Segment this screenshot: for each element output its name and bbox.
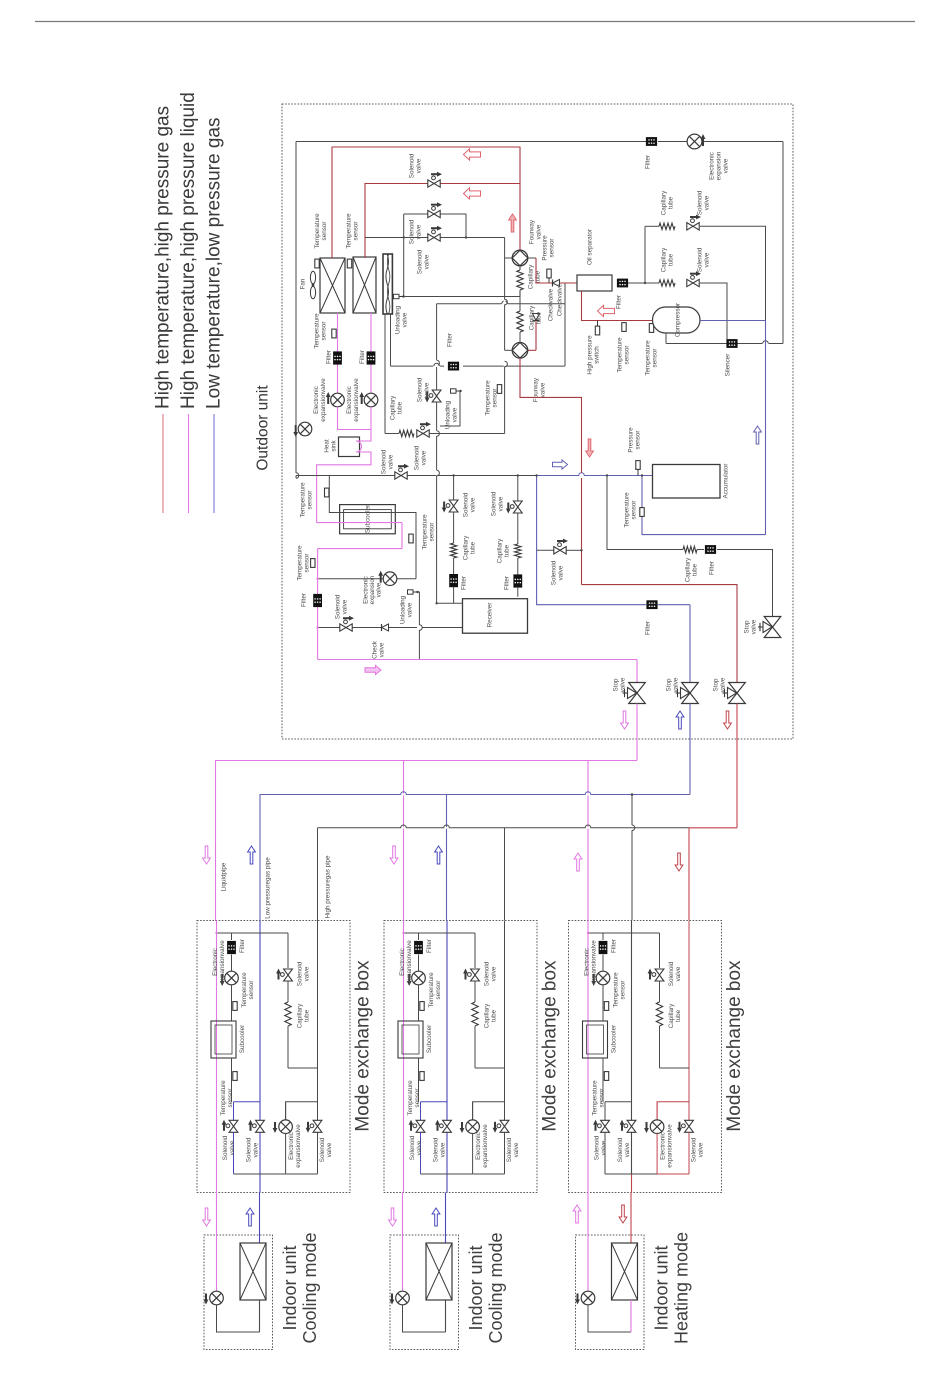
svg-text:Filter: Filter (447, 333, 454, 347)
filter on top pipe (645, 137, 658, 169)
svg-text:Solenoid: Solenoid (381, 449, 388, 474)
svg-text:sink: sink (331, 440, 338, 452)
svg-text:Solenoid: Solenoid (433, 1137, 440, 1162)
lower branch link in box 1 (234, 1101, 261, 1103)
svg-text:Pressure: Pressure (542, 235, 549, 261)
red pipe from coil1 to fourway valve (332, 147, 520, 258)
magenta arrow right (365, 665, 381, 674)
svg-text:Unloading: Unloading (400, 595, 407, 624)
svg-text:Fourway: Fourway (533, 377, 540, 402)
blue low pressure line out (537, 476, 690, 683)
svg-text:Filter: Filter (611, 939, 618, 953)
electronic expansion valve in box 3 (584, 940, 610, 986)
indoor 3 arrow liquid (573, 1205, 581, 1223)
mode exchange box 1 dashed enclosure (197, 921, 350, 1193)
temperature sensor near compressor 2 (645, 324, 659, 376)
svg-text:sensor: sensor (652, 349, 659, 368)
svg-text:expansionvalve: expansionvalve (482, 1124, 489, 1168)
svg-text:sensor: sensor (631, 501, 638, 520)
svg-text:Subcooler: Subcooler (239, 1025, 246, 1053)
svg-text:Solenoid: Solenoid (691, 1137, 698, 1162)
vertical link (505, 238, 508, 434)
svg-text:Cooling mode: Cooling mode (486, 1232, 506, 1343)
electronic expansion valve lower in box 2 (460, 1102, 489, 1174)
svg-text:Indoor unit: Indoor unit (280, 1245, 300, 1330)
svg-text:Solenoid: Solenoid (409, 219, 416, 244)
indoor 1 arrow liquid (203, 1208, 211, 1226)
svg-text:valve: valve (379, 642, 386, 657)
svg-text:Temperature: Temperature (613, 972, 620, 1008)
stop valve high pressure port (744, 617, 781, 638)
temperature sensor 1 in box 1 (232, 972, 256, 1021)
svg-text:valve: valve (751, 619, 758, 634)
fourway valve 1 (505, 219, 543, 266)
electronic expansion valve 2 (346, 378, 378, 422)
svg-text:Electronic: Electronic (212, 948, 219, 976)
svg-text:Checkvalve: Checkvalve (557, 283, 564, 316)
svg-text:Fourway: Fourway (529, 219, 536, 244)
solenoid valve on black line (365, 226, 505, 274)
suction rail (296, 475, 537, 477)
svg-text:Unloading: Unloading (445, 400, 452, 429)
indoor unit 1 label (280, 1232, 320, 1343)
magenta arrow down box1 (203, 846, 211, 864)
svg-text:valve: valve (407, 602, 414, 617)
svg-text:Temperature: Temperature (428, 972, 435, 1008)
svg-text:tube: tube (304, 1009, 311, 1022)
svg-text:Filter: Filter (645, 621, 652, 635)
lower branch link in box 3 (605, 1101, 632, 1103)
svg-text:tube: tube (470, 541, 477, 554)
solenoid valve on receiver line (335, 594, 355, 631)
magenta subcooler loop (317, 523, 402, 660)
high pressure gas header (318, 825, 690, 828)
svg-text:valve: valve (540, 382, 547, 397)
indoor 2 arrow gas (432, 1208, 440, 1226)
svg-text:Silencer: Silencer (725, 354, 732, 377)
svg-text:sensor: sensor (620, 981, 627, 1000)
svg-text:Capillary: Capillary (661, 190, 668, 215)
svg-text:valve: valve (675, 966, 682, 981)
svg-text:sensor: sensor (321, 322, 328, 341)
svg-text:High temperature,high pressure: High temperature,high pressure gas (153, 106, 174, 409)
svg-text:tube: tube (675, 1009, 682, 1022)
svg-text:sensor: sensor (304, 554, 311, 573)
magenta arrow up box3 (574, 853, 582, 871)
oil separator (577, 229, 612, 291)
liquid pipe into indoor 3 (587, 1193, 589, 1292)
svg-text:Mode exchange box: Mode exchange box (353, 960, 374, 1132)
svg-text:Temperature: Temperature (297, 545, 304, 581)
svg-text:Filter: Filter (359, 350, 366, 364)
svg-text:sensor: sensor (492, 389, 499, 408)
svg-text:sensor: sensor (435, 981, 442, 1000)
svg-text:Capillary: Capillary (528, 264, 535, 289)
indoor 2 expansion valve (390, 1291, 410, 1305)
solenoid valve C in box 1 (306, 1102, 333, 1162)
indoor unit 3 dashed enclosure (576, 1235, 645, 1350)
svg-text:Fan: Fan (300, 278, 307, 289)
top rule (35, 21, 915, 23)
indoor 3 expansion valve (575, 1291, 595, 1305)
heat exchanger coil 1 (320, 258, 345, 313)
mode exchange box 1 label (353, 960, 374, 1132)
svg-text:valve: valve (624, 1142, 631, 1157)
red pipe from coil2 through solenoid (365, 184, 520, 259)
svg-text:Solenoid: Solenoid (409, 1135, 416, 1160)
solenoid valve C in box 3 (677, 1102, 704, 1162)
lower branch link in box 2 (421, 1101, 448, 1103)
mode exchange box 2 label (540, 960, 561, 1132)
electronic expansion valve in box 2 (399, 940, 425, 986)
svg-text:Solenoid: Solenoid (491, 491, 498, 516)
magenta branch to box3 (587, 761, 589, 921)
svg-text:Capillary: Capillary (297, 1003, 304, 1028)
svg-text:Capillary: Capillary (463, 535, 470, 560)
solenoid valve A in box 2 (409, 1102, 425, 1174)
solenoid valve B in box 2 (433, 1120, 452, 1162)
branch header in box 1 (215, 932, 288, 934)
gas pipe into indoor 3 (630, 1193, 632, 1244)
magenta branch to box2 (403, 761, 405, 921)
svg-text:Solenoid: Solenoid (506, 1137, 513, 1162)
temperature sensor on coil 1 (314, 213, 328, 268)
svg-text:valve: valve (498, 496, 505, 511)
svg-text:Stop: Stop (613, 678, 620, 691)
svg-text:Electronic: Electronic (399, 948, 406, 976)
svg-text:Solenoid: Solenoid (697, 190, 704, 215)
svg-text:Solenoid: Solenoid (551, 560, 558, 585)
svg-text:Solenoid: Solenoid (222, 1135, 229, 1160)
svg-text:Filter: Filter (426, 939, 433, 953)
indoor 2 bottom pipe (403, 1300, 446, 1332)
svg-text:valve: valve (402, 312, 409, 327)
svg-text:sensor: sensor (353, 222, 360, 241)
temperature sensor 1 in box 3 (603, 972, 627, 1021)
svg-text:Temperature: Temperature (407, 1080, 414, 1116)
svg-text:Indoor unit: Indoor unit (652, 1245, 672, 1330)
svg-text:Capillary: Capillary (497, 538, 504, 563)
subcooler outlet in box 3 (592, 1058, 609, 1116)
blue line exits outdoor unit (689, 704, 691, 795)
gas pipe into indoor 2 (445, 1193, 447, 1244)
svg-text:Subcooler: Subcooler (426, 1025, 433, 1053)
svg-text:Filter: Filter (504, 576, 511, 590)
indoor 1 bottom pipe (217, 1300, 260, 1332)
svg-text:valve: valve (388, 454, 395, 469)
subcooler in box 1 (211, 1021, 246, 1058)
solenoid bypass blue-red (537, 539, 582, 586)
hollow red arrow left (lower) (464, 188, 481, 199)
solenoid capillary branch in box 2 (463, 933, 504, 1068)
indoor 2 heat exchanger (426, 1243, 452, 1300)
unloading valve mid (440, 389, 462, 429)
solenoid valve C in box 2 (493, 1102, 520, 1162)
electronic expansion valve 1 (313, 378, 344, 422)
svg-text:valve: valve (723, 158, 730, 173)
unloading valve top (394, 294, 521, 334)
svg-text:Capillary: Capillary (484, 1003, 491, 1028)
svg-text:expansionvalve: expansionvalve (320, 378, 327, 422)
temperature sensor on magenta 1 (314, 313, 337, 349)
indoor 3 bottom pipe (588, 1300, 631, 1332)
gas main through box 3 (631, 921, 633, 1193)
svg-text:Temperature: Temperature (314, 313, 321, 349)
liquid main through box 2 (403, 921, 405, 1193)
svg-text:valve: valve (513, 1142, 520, 1157)
indoor 3 heat exchanger (612, 1243, 638, 1300)
black drop from solenoid manifold (403, 214, 405, 297)
svg-text:valve: valve (424, 254, 431, 269)
blue gas header (260, 792, 690, 921)
receiver feed line (318, 627, 463, 629)
svg-text:valve: valve (440, 1142, 447, 1157)
oil return line with capillary (628, 247, 727, 344)
magenta arrow down box2 (390, 846, 398, 864)
junction dots outdoor (316, 236, 646, 628)
svg-text:Stop: Stop (744, 620, 751, 633)
svg-text:High pressure: High pressure (587, 335, 594, 375)
svg-text:Temperature: Temperature (220, 1080, 227, 1116)
liquid pipe into indoor 2 (402, 1193, 404, 1292)
oil drain to silencer line (666, 333, 783, 376)
svg-text:valve: valve (720, 677, 727, 692)
legend line: high temperature high pressure gas (red) (153, 106, 174, 513)
svg-text:Temperature: Temperature (592, 1080, 599, 1116)
solenoid valve bypass loop (404, 202, 466, 244)
indoor 2 arrow liquid (389, 1208, 397, 1226)
electronic expansion valve lower in box 1 (273, 1102, 302, 1174)
svg-text:valve: valve (601, 1140, 608, 1155)
receiver (463, 599, 528, 634)
svg-text:valve: valve (326, 1142, 333, 1157)
bottom rail in box 3 (605, 1133, 689, 1175)
magenta pipe through heat sink (317, 407, 371, 523)
svg-text:sensor: sensor (414, 1089, 421, 1108)
liquid main through box 1 (216, 921, 218, 1193)
svg-text:Oil separator: Oil separator (587, 229, 594, 265)
black line through subcooler (329, 476, 416, 579)
indoor 1 arrow gas (246, 1208, 254, 1226)
indoor 1 expansion valve (204, 1291, 224, 1305)
filter on blue line (645, 600, 658, 635)
svg-text:valve: valve (704, 252, 711, 267)
accumulator (653, 464, 730, 499)
svg-text:Filter: Filter (301, 593, 308, 607)
outdoor unit dashed enclosure (282, 104, 793, 739)
mode exchange box 2 dashed enclosure (384, 921, 537, 1193)
svg-text:sensor: sensor (321, 222, 328, 241)
svg-text:tube: tube (397, 401, 404, 414)
gas main through box 1 (259, 921, 261, 1193)
svg-text:Cooling mode: Cooling mode (300, 1232, 320, 1343)
svg-text:Mode exchange box: Mode exchange box (724, 960, 745, 1132)
svg-text:Temperature: Temperature (645, 340, 652, 376)
svg-text:sensor: sensor (599, 1089, 606, 1108)
check valve on oil separator line (548, 280, 560, 322)
heat sink expansion valve (293, 422, 312, 437)
solenoid capillary branch in box 3 (648, 933, 689, 1068)
svg-text:tube: tube (668, 196, 675, 209)
svg-text:Subcooler: Subcooler (365, 505, 372, 533)
svg-text:Filter: Filter (616, 295, 623, 309)
pressure sensor on suction rail (628, 427, 642, 476)
indoor 3 arrow gas (619, 1205, 627, 1223)
indoor unit 1 dashed enclosure (204, 1235, 273, 1350)
indoor unit 3 label (652, 1232, 692, 1344)
subcooler in box 3 (583, 1021, 618, 1058)
red line fourway1 to oil separator (528, 258, 577, 283)
svg-text:Capillary: Capillary (390, 395, 397, 420)
filter on magenta 2 (359, 350, 375, 365)
svg-text:High temperature,high pressure: High temperature,high pressure liquid (178, 92, 199, 409)
left edge pipe (296, 142, 299, 479)
high pressure branch to box1 (317, 828, 319, 921)
svg-text:valve: valve (342, 599, 349, 614)
blue arrow up at stop valve (676, 711, 684, 729)
svg-text:Heat: Heat (324, 439, 331, 453)
filter line (391, 314, 566, 371)
svg-text:valve: valve (452, 407, 459, 422)
red drop to fourway 2 (528, 321, 536, 350)
svg-text:Filter: Filter (326, 350, 333, 364)
svg-text:Electronic: Electronic (709, 152, 716, 180)
solenoid capillary branch in box 1 (276, 933, 317, 1068)
svg-text:Solenoid: Solenoid (246, 1137, 253, 1162)
svg-text:Temperature: Temperature (346, 213, 353, 249)
svg-text:sensor: sensor (227, 1089, 234, 1108)
red high pressure line out (582, 585, 738, 682)
electronic expansion valve lower in box 3 (644, 1102, 673, 1174)
red arrow down at stop valve (724, 711, 732, 729)
solenoid valve A in box 1 (222, 1102, 238, 1174)
oil return from suction rail (607, 476, 773, 617)
heat exchanger coil 2 (353, 257, 376, 313)
svg-text:expansionvalve: expansionvalve (219, 940, 226, 984)
svg-text:Solenoid: Solenoid (417, 377, 424, 402)
blue arrow up box2 (435, 846, 443, 864)
svg-text:Filter: Filter (461, 576, 468, 590)
svg-text:Solenoid: Solenoid (417, 249, 424, 274)
magenta line exits outdoor unit (636, 704, 638, 761)
svg-text:sensor: sensor (248, 981, 255, 1000)
svg-text:Checkvalve: Checkvalve (548, 288, 555, 321)
temperature sensor on subcooler outlet (409, 514, 436, 550)
svg-text:Stop: Stop (666, 678, 673, 691)
branch header in box 2 (402, 932, 475, 934)
solenoid valve B in box 1 (246, 1120, 265, 1162)
filter branch in box 3 (599, 933, 618, 971)
svg-text:tube: tube (536, 311, 543, 324)
svg-text:Capillary: Capillary (668, 1003, 675, 1028)
legend line: low temperature low pressure gas (blue) (204, 118, 225, 513)
blue arrow up box1 (248, 846, 256, 864)
svg-text:valve: valve (376, 582, 383, 597)
high pressure branch to box2 (504, 828, 506, 920)
svg-text:Solenoid: Solenoid (697, 247, 704, 272)
svg-text:valve: valve (558, 565, 565, 580)
svg-text:Temperature: Temperature (617, 337, 624, 373)
svg-text:Capillary: Capillary (661, 247, 668, 272)
svg-text:Temperature: Temperature (422, 514, 429, 550)
svg-text:Solenoid: Solenoid (463, 492, 470, 517)
svg-text:switch: switch (594, 346, 601, 364)
svg-text:Solenoid: Solenoid (319, 1137, 326, 1162)
capillary solenoid branch line (385, 395, 505, 470)
svg-text:valve: valve (491, 966, 498, 981)
outdoor unit label (255, 385, 272, 471)
svg-text:expansionvalve: expansionvalve (591, 940, 598, 984)
subcooler outlet in box 2 (407, 1058, 424, 1116)
svg-text:tube: tube (504, 544, 511, 557)
high pressure main in box 3 (657, 921, 689, 1121)
filter branch in box 1 (227, 933, 246, 971)
filter on magenta 1 (326, 350, 342, 365)
svg-text:Solenoid: Solenoid (409, 153, 416, 178)
temperature sensor near compressor 1 (617, 323, 631, 373)
bottom rail in box 2 (421, 1133, 505, 1175)
accumulator suction out (642, 321, 766, 535)
svg-text:Capillary: Capillary (529, 305, 536, 330)
box around fourway valves (437, 301, 565, 431)
liquid pipe into indoor 1 (216, 1193, 218, 1292)
high pressure gas pipe label (325, 855, 332, 919)
svg-text:valve: valve (698, 1142, 705, 1157)
pressure sensor on discharge (542, 235, 556, 283)
capillary between fourways (517, 297, 543, 343)
discharge loop right edge (782, 142, 784, 344)
hollow red arrow left (upper) (464, 149, 481, 160)
subcooler in box 2 (398, 1021, 433, 1058)
svg-text:Temperature: Temperature (241, 972, 248, 1008)
black branch to box3 (631, 793, 635, 920)
unloading valve on subcooler outlet (400, 590, 423, 660)
temperature sensor on magenta drop (297, 545, 316, 581)
magenta pipe coil1 to EEV (337, 313, 339, 393)
heat sink (324, 437, 360, 457)
svg-text:Indoor unit: Indoor unit (466, 1245, 486, 1330)
svg-text:sensor: sensor (624, 346, 631, 365)
svg-text:Heating mode: Heating mode (672, 1232, 692, 1344)
red arrow up at fourway valve (509, 214, 517, 232)
svg-text:Outdoor unit: Outdoor unit (255, 385, 272, 471)
magenta pipe coil2 to EEV (370, 313, 372, 393)
liquid pipe label (221, 862, 228, 891)
separator drop line (384, 314, 386, 434)
electronic expansion valve on top pipe (687, 134, 729, 180)
subcooler (340, 505, 396, 534)
svg-text:Temperature: Temperature (485, 380, 492, 416)
svg-text:valve: valve (304, 966, 311, 981)
blue branch to box2 (446, 795, 448, 921)
svg-text:Electronic: Electronic (584, 948, 591, 976)
stop valve gas (666, 677, 699, 703)
receiver top branch 1 (437, 431, 463, 604)
svg-text:tube: tube (491, 1009, 498, 1022)
svg-text:Solenoid: Solenoid (297, 961, 304, 986)
svg-text:sensor: sensor (307, 491, 314, 510)
magenta arrow down at stop valve (621, 711, 629, 729)
legend line: high temperature high pressure liquid (magenta) (178, 92, 199, 513)
svg-text:Receiver: Receiver (487, 603, 494, 628)
svg-text:Unloading: Unloading (395, 305, 402, 334)
gas pipe into indoor 1 (259, 1193, 261, 1244)
svg-text:Mode exchange box: Mode exchange box (540, 960, 561, 1132)
svg-text:Filter: Filter (709, 561, 716, 575)
svg-text:Check: Check (372, 640, 379, 659)
svg-text:Solenoid: Solenoid (414, 445, 421, 470)
svg-text:Filter: Filter (239, 939, 246, 953)
